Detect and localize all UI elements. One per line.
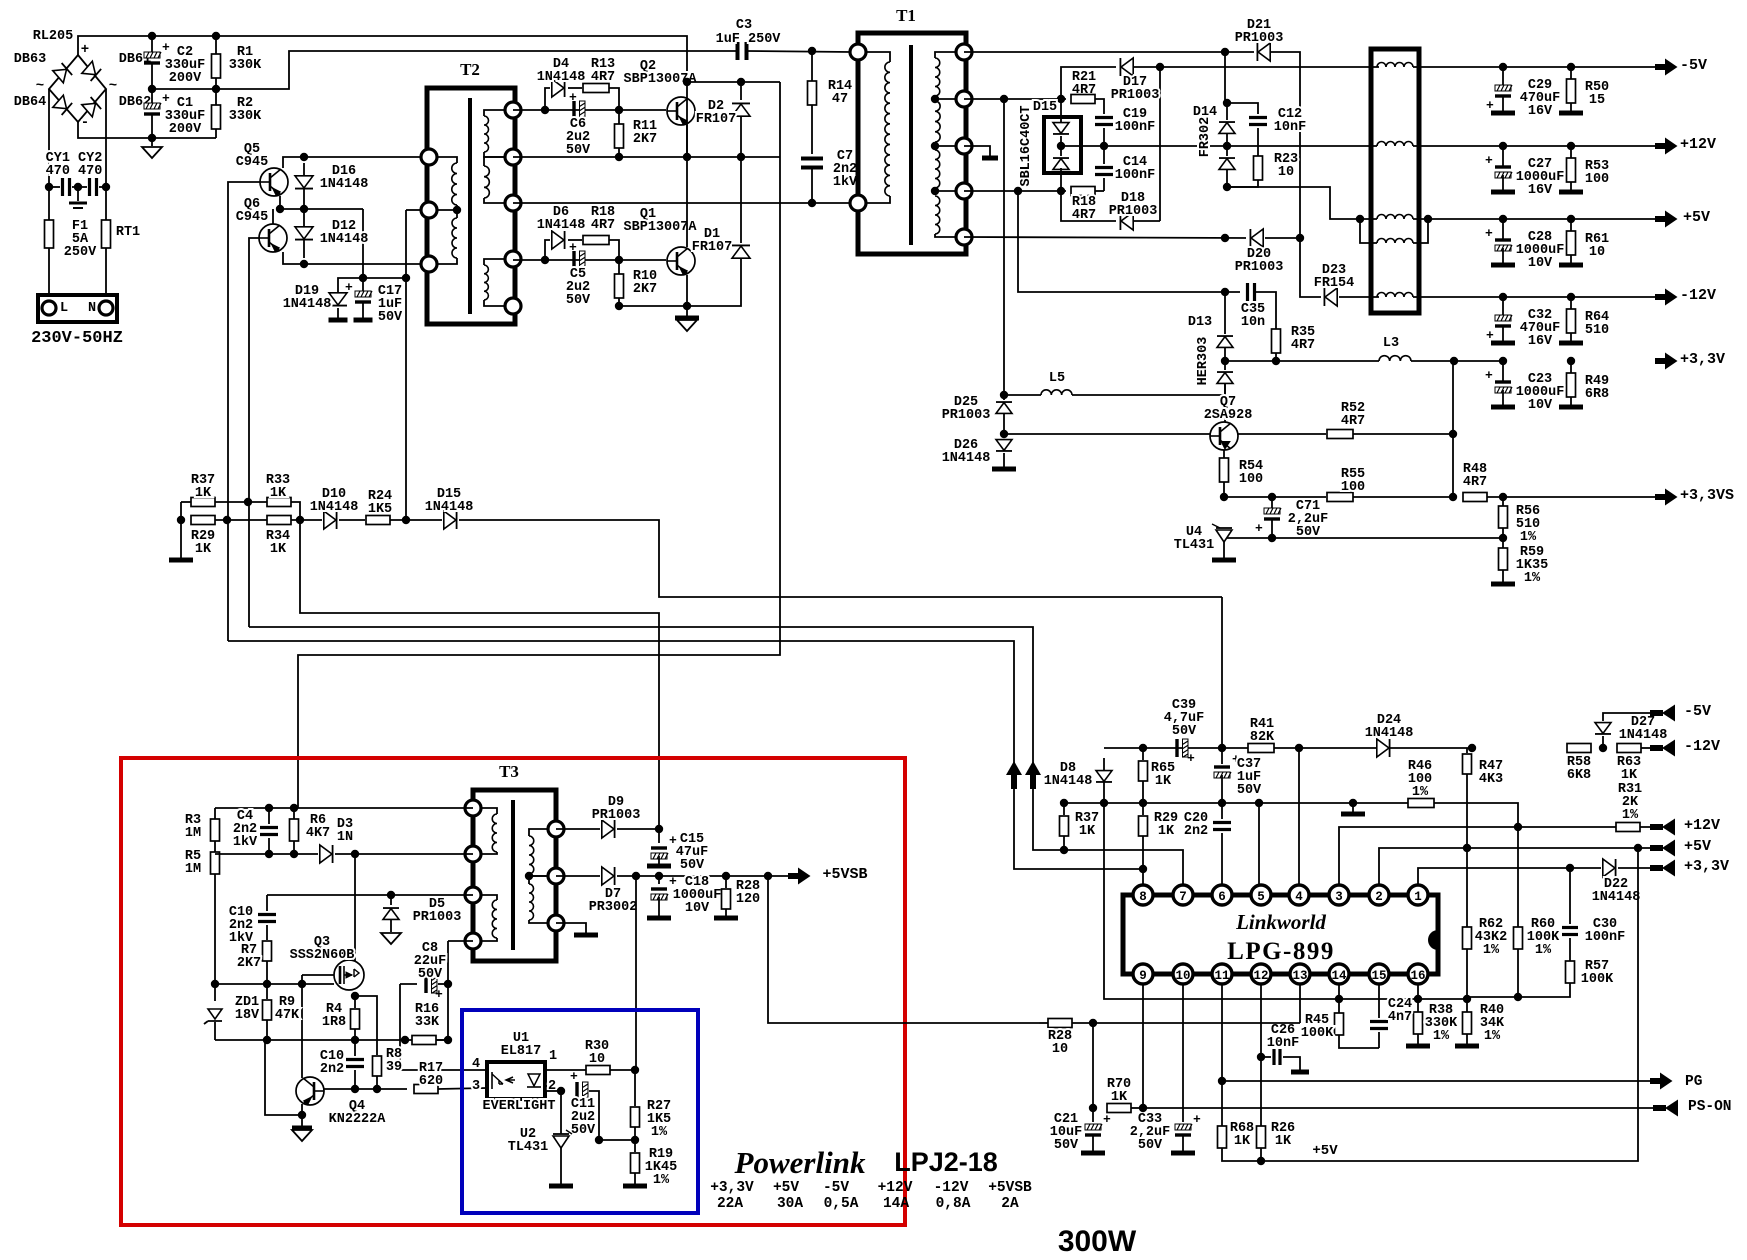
junction D14 bottom <box>1223 183 1231 191</box>
junction R29 left <box>177 516 185 524</box>
svg-text:300W: 300W <box>1058 1225 1137 1258</box>
resistor R30 <box>586 1066 610 1075</box>
svg-text:1uF 250V: 1uF 250V <box>716 32 782 47</box>
svg-text:8: 8 <box>1139 890 1147 904</box>
junction R9 bottom <box>263 1036 271 1044</box>
wire +5V rect output <box>1227 187 1360 219</box>
svg-text:+: + <box>1187 751 1195 766</box>
optocoupler U1 LED <box>491 1072 493 1089</box>
junction Q5 bus <box>223 516 231 524</box>
junction capacitor C27 <box>1499 142 1507 150</box>
wire resistor R61 bottom <box>1570 255 1572 263</box>
wire T3 s2 top <box>529 876 556 884</box>
svg-text:+: + <box>1485 153 1493 168</box>
transformer T1 core <box>909 45 913 245</box>
wire R9 top <box>266 984 268 999</box>
junction R11 top <box>615 106 623 114</box>
junction R58 R47 <box>1468 744 1476 752</box>
ground C26 <box>1291 1070 1309 1075</box>
capacitor C6 <box>572 101 575 119</box>
svg-text:3: 3 <box>1335 890 1343 904</box>
ground T1 centre tap <box>982 156 998 161</box>
terminal L <box>42 301 56 315</box>
transistor Q2 <box>667 97 695 125</box>
ground Q4 <box>292 1130 312 1141</box>
wire -12V rail <box>1413 296 1655 298</box>
IC U3 pin 12 <box>1251 964 1271 984</box>
IC U3 pin 1 <box>1408 885 1428 905</box>
capacitor C5 <box>572 251 575 269</box>
ground resistor R61 <box>1559 263 1583 268</box>
zener ZD1 <box>208 1009 222 1019</box>
wire R40 bottom <box>1466 1034 1468 1044</box>
ground C21 <box>1081 1151 1105 1156</box>
svg-text:+: + <box>570 1069 578 1084</box>
ground D5 <box>381 933 401 944</box>
wire C14 top <box>1103 146 1105 164</box>
IC U3 pin 16 <box>1408 964 1428 984</box>
wire R1 R2 chain <box>215 36 217 138</box>
junction C37 C20 <box>1218 799 1226 807</box>
choke winding -5V <box>1377 63 1413 68</box>
svg-text:R45100K: R45100K <box>1301 1013 1334 1041</box>
ground C15 <box>647 864 671 869</box>
wire resistor R50 top <box>1570 67 1572 79</box>
wire snubber bottom row <box>215 853 318 855</box>
arrow bus B <box>1025 761 1041 789</box>
wire T2 mid terminal down to feedback row <box>405 210 407 520</box>
wire Q2 emitter <box>686 125 688 157</box>
svg-text:+5VSB: +5VSB <box>822 866 867 883</box>
junction R54 C71 <box>1220 493 1228 501</box>
wire T2 to Q1 base <box>513 259 666 261</box>
svg-text:C1547uF50V: C1547uF50V <box>676 832 708 873</box>
wire D12 <box>303 209 305 258</box>
IC U3 pin 10 <box>1173 964 1193 984</box>
wire T2 rl bottom <box>484 300 513 306</box>
svg-text:~: ~ <box>109 78 117 94</box>
svg-text:R53100: R53100 <box>1585 159 1609 187</box>
wire +5V rect row1 <box>964 98 1066 100</box>
resistor R53 <box>1567 158 1576 182</box>
wire T3 bottom to C8 <box>448 940 473 942</box>
capacitor C3 <box>738 42 747 60</box>
wire C17 top <box>362 278 364 294</box>
svg-text:T2: T2 <box>460 60 480 79</box>
wire T3 s1 top <box>529 829 556 836</box>
ground CY mid <box>69 202 87 205</box>
svg-text:230V-50HZ: 230V-50HZ <box>31 329 123 348</box>
transformer T2 core <box>468 98 472 314</box>
wire T1 sec top <box>935 52 964 58</box>
terminal T3-4 <box>465 933 481 949</box>
svg-text:L: L <box>60 301 68 316</box>
junction R30 bus <box>632 872 640 880</box>
wire C33 bottom <box>1182 1135 1184 1151</box>
resistor R41 <box>1248 744 1274 753</box>
wire C24 bottom <box>1378 1032 1380 1048</box>
wire +5VSB to LPG VCC <box>768 876 1039 1023</box>
svg-text:R484R7: R484R7 <box>1463 462 1487 490</box>
svg-text:R184R7: R184R7 <box>591 205 615 233</box>
junction Q1 emitter <box>683 302 691 310</box>
wire U4 to ground <box>1223 542 1225 558</box>
connector +5V sense <box>1650 840 1675 857</box>
ground feedback <box>169 558 193 563</box>
wire mid node down to C17 <box>362 209 364 278</box>
diode D4 <box>552 79 564 97</box>
wire +12V rect centre row <box>1061 145 1222 147</box>
wire C71 bottom <box>1271 519 1273 538</box>
wire D14 bottom <box>1226 170 1228 187</box>
resistor R17 <box>414 1085 438 1094</box>
resistor R57 <box>1566 961 1575 983</box>
wire R54 bottom <box>1223 482 1225 497</box>
resistor R11 <box>615 124 624 148</box>
wire C20 top <box>1221 803 1223 819</box>
T1 secondary winding 2 <box>935 101 940 142</box>
IC U3 pin 2 <box>1369 885 1389 905</box>
diode D6 <box>552 231 564 249</box>
wire Q5 base bus down <box>228 182 260 641</box>
wire C1 bottom <box>151 113 153 138</box>
bridge diode DB62 <box>82 97 101 117</box>
svg-text:~: ~ <box>36 78 44 94</box>
terminal T3-1 <box>465 800 481 816</box>
wire C8 left stub <box>400 983 417 985</box>
transformer T3 body <box>473 790 556 961</box>
resistor R47 <box>1463 754 1472 774</box>
junction R56 top <box>1499 493 1507 501</box>
resistor R58 <box>1567 744 1591 753</box>
junction R37b bus <box>1060 846 1068 854</box>
svg-text:+12V: +12V <box>1680 136 1716 153</box>
wire pin4 up <box>1298 748 1300 884</box>
capacitor C29 <box>1495 85 1512 91</box>
capacitor C27 <box>1495 165 1511 168</box>
wire bridge minus rail <box>78 122 216 138</box>
junction Q3 drain node <box>351 850 359 858</box>
wire T3 aux top <box>473 895 497 900</box>
junction +5V choke right <box>1424 215 1432 223</box>
wire D1 bottom row <box>619 259 741 306</box>
junction Q4 emitter <box>298 1111 306 1119</box>
junction D14 centre <box>1223 142 1231 150</box>
terminal T2-2 <box>421 202 437 218</box>
wire C19 bottom <box>1103 128 1105 146</box>
wire +5VSB to R30 <box>635 876 637 1070</box>
svg-text:RL205: RL205 <box>33 29 74 44</box>
inductor L3 <box>1379 356 1411 361</box>
junction capacitor C32 <box>1499 293 1507 301</box>
resistor R61 <box>1567 231 1576 255</box>
wire T3 s2 bottom <box>529 920 556 923</box>
svg-text:+: + <box>1193 1112 1201 1127</box>
wire R11 top <box>618 110 620 125</box>
svg-text:CY1 CY2470 470: CY1 CY2470 470 <box>46 151 103 179</box>
junction pin5 <box>1255 799 1263 807</box>
svg-text:C171uF50V: C171uF50V <box>378 284 403 325</box>
svg-text:-5V: -5V <box>1684 703 1711 720</box>
shunt regulator U4 TL431 <box>1216 530 1232 542</box>
ground capacitor C28 <box>1491 263 1515 268</box>
junction R47 R62 <box>1463 844 1471 852</box>
junction resistor R49 <box>1567 357 1575 365</box>
wire PG line <box>1222 1080 1655 1082</box>
wire D20 out <box>1265 237 1300 239</box>
svg-text:+: + <box>435 987 443 1002</box>
wire C39 R41 D24 row <box>1104 747 1472 749</box>
wire loop top left <box>1061 67 1116 99</box>
svg-text:+: + <box>1255 521 1263 536</box>
junction R46 +12V <box>1514 823 1522 831</box>
wire R28b left <box>1039 1022 1048 1024</box>
wire T2 lu top <box>429 157 457 163</box>
junction C19 C14 <box>1100 142 1108 150</box>
junction D6 branch <box>541 256 549 264</box>
svg-text:4: 4 <box>472 1057 480 1072</box>
junction D5 <box>387 891 395 899</box>
wire D27 bottom <box>1602 736 1604 748</box>
ground resistor R49 <box>1559 405 1583 410</box>
svg-text:C2610nF: C2610nF <box>1267 1023 1299 1051</box>
wire Q3 source to R8 <box>355 996 377 1055</box>
IC U3 pin 11 <box>1212 964 1232 984</box>
wire D23 to choke <box>1339 296 1379 298</box>
IC U3 pin 7 <box>1173 885 1193 905</box>
resistor R35 <box>1272 329 1281 353</box>
svg-text:C202n2: C202n2 <box>1184 811 1208 839</box>
wire T2 rl top <box>484 259 513 265</box>
choke winding -12V <box>1377 293 1413 298</box>
ground U4 <box>1212 558 1236 563</box>
junction to L5 branch <box>1000 95 1008 103</box>
resistor R38 <box>1414 1012 1423 1034</box>
svg-text:12: 12 <box>1253 969 1268 983</box>
junction T1 tap1 <box>931 95 939 103</box>
wire R46 to +12V line <box>1434 803 1518 827</box>
wire C8 to R16 <box>447 984 449 1040</box>
svg-text:D15: D15 <box>1033 100 1057 115</box>
resistor R9 <box>263 1000 272 1020</box>
terminal T1 left bottom <box>850 195 866 211</box>
resistor R40 <box>1463 1012 1472 1034</box>
ground capacitor C27 <box>1491 190 1515 195</box>
capacitor C14 <box>1095 168 1113 175</box>
wire C10b bottom <box>354 1070 356 1089</box>
terminal T1-s2 <box>956 91 972 107</box>
wire D2 D1 link <box>740 157 742 243</box>
wire R18s right <box>1095 190 1104 192</box>
junction capacitor C28 <box>1499 215 1507 223</box>
connector +12V out <box>1655 138 1678 155</box>
wire resistor R61 top <box>1570 219 1572 231</box>
wire R21 to C19 <box>1095 99 1104 114</box>
junction R6 bottom <box>290 850 298 858</box>
ground R40 <box>1455 1044 1479 1049</box>
wire to +3.3VS <box>1487 496 1655 498</box>
ground Q4 bar <box>292 1126 312 1131</box>
wire up to D4 <box>545 88 550 110</box>
junction R10 top <box>615 256 623 264</box>
junction +5V row <box>1257 1157 1265 1165</box>
wire C11 right down <box>589 1091 599 1140</box>
wire T2 l mid2 <box>456 210 458 218</box>
diode D27 <box>1595 723 1611 734</box>
junction R70 left <box>1089 1104 1097 1112</box>
wire R27 bottom <box>634 1127 636 1140</box>
junction T3 sec mid <box>525 872 533 880</box>
connector -5V out <box>1655 59 1678 76</box>
diode D25 <box>996 403 1012 414</box>
wire C7 bottom <box>811 168 813 203</box>
resistor R52 <box>1327 430 1353 439</box>
svg-text:+3,3VS: +3,3VS <box>1680 487 1734 504</box>
resistor R63 <box>1617 744 1641 753</box>
ground resistor R53 <box>1559 190 1583 195</box>
wire C21 top <box>1092 1023 1094 1122</box>
resistor R28 standby <box>722 889 731 909</box>
resistor R68 <box>1218 1126 1227 1148</box>
junction pin14 <box>1335 995 1343 1003</box>
svg-text:D13: D13 <box>1188 315 1212 330</box>
wire R35 bottom <box>1275 353 1277 360</box>
svg-text:+5V: +5V <box>1684 838 1711 855</box>
wire resistor R64 top <box>1570 297 1572 309</box>
junction R4 bottom <box>351 1036 359 1044</box>
wire C15 top <box>658 829 660 843</box>
wire Q4 base row <box>324 1088 407 1090</box>
wire collector node right <box>687 81 780 83</box>
ground R38 <box>1406 1044 1430 1049</box>
T1 primary winding <box>885 62 890 196</box>
wire Q4 emitter <box>265 1040 302 1115</box>
wire C3 to T1 <box>747 51 851 52</box>
wire half-bridge mid node <box>513 156 780 158</box>
resistor R1 <box>212 54 221 78</box>
junction C71 top <box>1268 493 1276 501</box>
diode D17 <box>1121 58 1133 76</box>
junction pin4 R41 <box>1295 744 1303 752</box>
svg-text:+: + <box>569 240 577 255</box>
wire D16 <box>303 163 305 209</box>
wire loop bottom right <box>1134 220 1160 222</box>
IC U3 pin 6 <box>1212 885 1232 905</box>
junction D25 top <box>1000 391 1008 399</box>
wire C17 node to T2 return <box>363 277 406 279</box>
wire T2 ll bottom <box>429 258 457 264</box>
wire pin14 down <box>1338 985 1340 1013</box>
svg-text:C1210nF: C1210nF <box>1274 107 1306 135</box>
wire R37b top stub <box>1063 803 1065 815</box>
svg-text:+: + <box>669 874 677 889</box>
junction Q3 source <box>351 992 359 1000</box>
wire T2 l mid <box>429 205 457 210</box>
wire L3 to +3.3V rail <box>1411 360 1503 362</box>
T3 aux winding <box>492 900 497 938</box>
diode D19 <box>329 293 347 305</box>
svg-text:R839: R839 <box>386 1047 402 1075</box>
wire +3.3V sense vertical <box>1452 361 1454 497</box>
wire R62 top <box>1466 848 1468 927</box>
ground capacitor C29 <box>1491 111 1515 116</box>
junction D27 R58 R63 <box>1599 744 1607 752</box>
ground bridge <box>142 147 162 158</box>
capacitor C19 <box>1095 118 1113 125</box>
wire R29 to R34 <box>215 519 267 521</box>
terminal T1-s4 <box>956 183 972 199</box>
junction R6 top <box>290 804 298 812</box>
svg-text:R57100K: R57100K <box>1581 959 1614 987</box>
junction R56 R59 <box>1499 534 1507 542</box>
wire R68 bottom <box>1222 1148 1261 1161</box>
wire R14 to C7 <box>811 105 813 154</box>
wire D15 to bus A <box>459 520 1222 597</box>
junction D13 centre <box>1221 357 1229 365</box>
wire bus A down to supervisor <box>1221 597 1223 748</box>
wire R4 bottom <box>354 1029 356 1040</box>
diode D24 <box>1377 739 1389 757</box>
connector +3.3V sense <box>1650 860 1675 877</box>
wire capacitor C32 bottom <box>1502 326 1504 341</box>
wire VCC to pin13 <box>1093 1022 1300 1024</box>
wire T2 to Q2 base <box>513 109 666 111</box>
wire C4 top stub <box>268 808 270 824</box>
junction CY mid <box>74 183 82 191</box>
junction R28 top <box>722 872 730 880</box>
wire C10b top <box>354 1040 356 1056</box>
connector PG <box>1650 1073 1673 1090</box>
wire D25 out <box>1003 414 1005 434</box>
diode D9 <box>602 820 614 838</box>
wire C10 top <box>266 895 268 911</box>
wire pin5 up <box>1258 803 1260 884</box>
wire +12V into choke <box>1222 145 1377 147</box>
wire CY mid to ground <box>77 187 79 201</box>
capacitor C33 <box>1175 1124 1192 1130</box>
wire C17 bottom <box>362 302 364 318</box>
wire pin15 down <box>1378 985 1380 1018</box>
junction Q2 collector <box>683 78 691 86</box>
bridge diode DB61 <box>82 61 101 81</box>
wire R4 top <box>354 996 356 1008</box>
junction T2 left windings <box>453 206 461 214</box>
wire Q7 emitter <box>1223 450 1225 458</box>
svg-text:5: 5 <box>1257 890 1265 904</box>
wire resistor R50 bottom <box>1570 103 1572 111</box>
wire C10 to R7 <box>266 925 268 940</box>
wire divider row <box>1467 996 1518 998</box>
svg-text:4: 4 <box>1295 890 1303 904</box>
diode D13 upper <box>1217 337 1233 348</box>
wire ZD1 top <box>214 984 216 1001</box>
IC U3 pin 13 <box>1290 964 1310 984</box>
wire U2 cathode <box>560 1091 562 1134</box>
wire Q2 emitter to Q1 collector <box>686 97 688 247</box>
junction D2 bottom <box>737 153 745 161</box>
svg-text:7: 7 <box>1179 890 1187 904</box>
wire R37 left chain <box>180 502 182 558</box>
wire D15 mid <box>1060 136 1062 156</box>
wire R3 R5 <box>214 841 216 852</box>
wire Q5 collector row <box>283 157 429 168</box>
junction R65 bottom <box>1139 799 1147 807</box>
capacitor C23 <box>1495 380 1511 383</box>
junction +3.3VS sense <box>1450 357 1458 365</box>
wire D14 mid <box>1226 134 1228 156</box>
junction R52 sense <box>1449 430 1457 438</box>
terminal T2-8 <box>505 298 521 314</box>
